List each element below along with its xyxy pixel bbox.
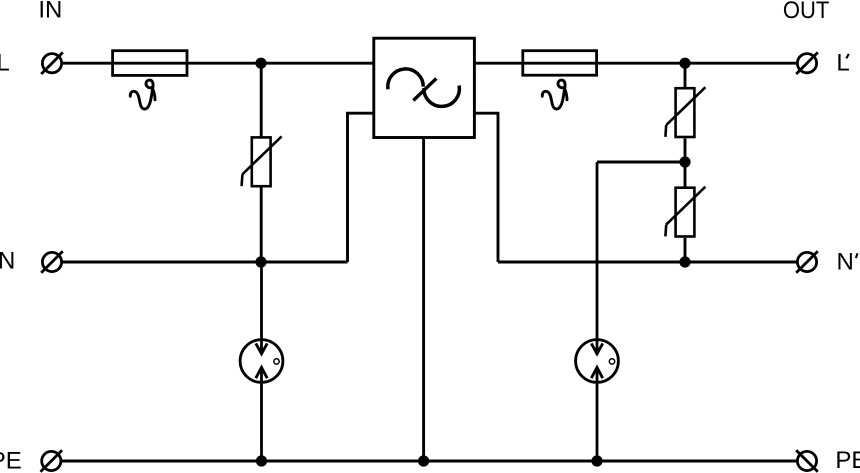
terminal PE (OUT), backslash variant: [796, 450, 818, 472]
svg-text:PE: PE: [835, 447, 860, 473]
wire node A down to varistor RV1: [260, 63, 263, 138]
svg-text:IN: IN: [38, 0, 62, 24]
varistor RV1 (L-N): [242, 136, 282, 186]
wire through fuse F1 to node A and filter box: [113, 62, 374, 65]
apostrophe of L': [846, 54, 849, 59]
wire varistor RV1 to node B: [260, 188, 263, 263]
svg-text:OUT: OUT: [783, 0, 830, 24]
terminal PE (IN): [41, 450, 63, 472]
wire varistor RV3 to node E: [684, 238, 687, 262]
terminal L (IN): [41, 52, 63, 74]
terminal L' (OUT): [796, 52, 818, 74]
gas discharge tube G1 (N-PE): [240, 262, 283, 461]
node D junction dot (mid point): [679, 156, 690, 167]
svg-text:PE: PE: [0, 447, 22, 473]
node G junction dot (box-PE): [418, 455, 429, 466]
wire N terminal to node B and up-link: [63, 261, 348, 264]
fuse F2 body: [523, 51, 597, 75]
filter sine symbol inside U1: [388, 69, 423, 89]
varistor RV2 (L'-mid): [665, 87, 705, 137]
svg-text:L: L: [0, 49, 10, 76]
wire filter box to fuse F2: [474, 62, 524, 65]
wire varistor RV2 to node D: [684, 139, 687, 188]
wire N line up to filter box (left riser): [348, 113, 374, 262]
terminal N' (OUT): [796, 251, 818, 273]
node E junction dot (N' line): [679, 256, 690, 267]
thermal symbol theta for F2: [542, 80, 567, 109]
wire node C down to varistor RV2: [684, 63, 687, 88]
svg-text:N: N: [837, 249, 854, 276]
wire L terminal to fuse F1: [63, 62, 113, 65]
wire node D to GDT2 branch (horizontal): [597, 161, 685, 164]
node H junction dot (GDT2-PE): [591, 455, 602, 466]
gas discharge tube G2 (mid-PE): [576, 162, 619, 461]
wire through fuse F2 to node C and terminal L': [524, 62, 797, 65]
PE bus wire: [62, 460, 797, 463]
wire N' line to terminal N': [498, 261, 797, 264]
node A junction dot (L / varistor RV1): [255, 58, 266, 69]
varistor RV3 (mid-N'): [665, 187, 705, 237]
wire filter box to N' line (right riser): [474, 113, 498, 262]
node F junction dot (GDT1-PE): [256, 455, 267, 466]
node B junction dot (N / RV1 / GDT1): [255, 256, 266, 267]
filter box U1: [374, 38, 475, 137]
wire filter box bottom to PE: [422, 138, 425, 462]
fuse F1 body: [113, 51, 187, 76]
apostrophe of N': [856, 253, 858, 258]
terminal N (IN): [41, 251, 63, 273]
node C junction dot (L' / varistor RV2): [679, 58, 690, 69]
thermal symbol theta for F1: [130, 80, 155, 109]
svg-text:N: N: [0, 248, 15, 275]
filter slash inside U1: [413, 79, 436, 101]
